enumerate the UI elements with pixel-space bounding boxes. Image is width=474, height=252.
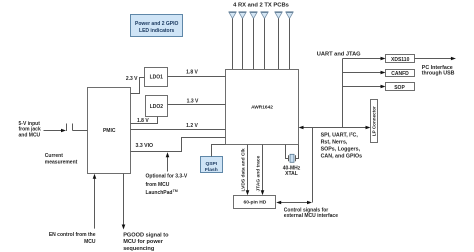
- regulator LDO1: [145, 68, 168, 87]
- svg-text:1.3 V: 1.3 V: [187, 98, 199, 104]
- svg-text:LDO2: LDO2: [150, 104, 164, 110]
- wire: 5-V input arrow: [44, 129, 67, 133]
- wire: UART and JTAG to XDS110: [343, 57, 386, 61]
- svg-text:AWR1642: AWR1642: [251, 105, 273, 111]
- crystal 40-MHz XTAL: [286, 145, 299, 163]
- arrow: PGOOD signal from PMIC: [122, 174, 126, 230]
- svg-text:Rst, Nerrs,: Rst, Nerrs,: [321, 139, 348, 145]
- svg-text:SOP: SOP: [394, 85, 405, 91]
- svg-text:QSPI: QSPI: [205, 161, 217, 167]
- label: Control signals for external MCU interface: [284, 208, 338, 219]
- svg-text:SOPs, Loggers,: SOPs, Loggers,: [321, 147, 361, 153]
- wire: JTAG and trace to 60-pin HD: [261, 145, 265, 196]
- label: Optional for 3.3-V from MCU LaunchPad: [146, 174, 188, 197]
- svg-text:2.3 V: 2.3 V: [126, 76, 138, 82]
- label: PC Interface through USB: [422, 65, 455, 77]
- antenna TX1: [275, 11, 283, 69]
- svg-text:MCU: MCU: [84, 239, 96, 245]
- svg-text:1.8 V: 1.8 V: [186, 70, 198, 76]
- transceiver CANFD: [386, 70, 415, 78]
- arrow: optional 3.3-V feed into 3.3 VIO rail: [166, 152, 170, 171]
- svg-text:PMIC: PMIC: [103, 128, 116, 134]
- label: SPI, UART, I2C, Rst, Nerrs, SOPs, Loggers, CAN, and GPIOs: [321, 132, 363, 160]
- wire: PMIC 1.2V to AWR1642: [131, 129, 226, 131]
- svg-text:from MCU: from MCU: [146, 182, 170, 188]
- wire: branch up to debug blocks: [342, 59, 344, 128]
- svg-text:through USB: through USB: [422, 71, 455, 77]
- wire: drop to 60-pin HD (control signals): [312, 128, 314, 203]
- svg-text:LaunchPad: LaunchPad: [146, 190, 173, 196]
- arrow: XDS110 to PC: [415, 57, 456, 61]
- svg-text:and MCU: and MCU: [19, 132, 41, 138]
- antenna RX2: [239, 11, 247, 69]
- svg-text:3.3 VIO: 3.3 VIO: [136, 143, 154, 149]
- antenna RX4: [261, 11, 269, 69]
- svg-text:external MCU interface: external MCU interface: [284, 213, 338, 219]
- connector LP Connector: [371, 100, 378, 143]
- connector 60-pin HD: [234, 196, 276, 209]
- label: EN control from the MCU: [49, 232, 96, 245]
- antenna TX2: [286, 11, 294, 69]
- label: Current measurement: [45, 153, 78, 165]
- regulator LDO2: [146, 96, 168, 117]
- wire: to CANFD: [343, 71, 386, 75]
- wire: LDO1 1.8V out to AWR1642: [168, 76, 226, 78]
- svg-text:Power and 2 GPIO: Power and 2 GPIO: [135, 21, 178, 27]
- wire: PMIC 3.3 VIO to AWR1642: [131, 138, 226, 152]
- antenna RX1: [229, 11, 237, 69]
- label: 5-V input from jack and MCU: [19, 121, 41, 138]
- svg-text:60-pin HD: 60-pin HD: [243, 199, 266, 205]
- svg-text:Current: Current: [45, 153, 63, 159]
- svg-text:4 RX and 2 TX PCBs: 4 RX and 2 TX PCBs: [233, 3, 289, 9]
- svg-text:LDO1: LDO1: [150, 75, 164, 81]
- svg-text:CANFD: CANFD: [391, 71, 409, 77]
- svg-text:SPI, UART, I2C,: SPI, UART, I2C,: [321, 132, 359, 139]
- wire: PMIC 1.8V to LDO2: [131, 117, 158, 124]
- svg-text:UART and JTAG: UART and JTAG: [317, 51, 361, 57]
- svg-text:Optional for 3.3-V: Optional for 3.3-V: [146, 174, 188, 180]
- wire: LDO2 1.3V out to AWR1642: [168, 104, 226, 106]
- label: PGOOD signal to MCU for power sequencing: [123, 233, 169, 252]
- svg-text:1.8 V: 1.8 V: [137, 118, 149, 124]
- IC AWR1642: [226, 70, 299, 145]
- switch SOP: [386, 83, 415, 91]
- annotation box: Power and 2 GPIO LED indicators: [131, 15, 183, 37]
- svg-text:1.2 V: 1.2 V: [186, 123, 198, 129]
- wire: PMIC 2.3V to LDO1: [131, 78, 145, 94]
- svg-text:JTAG and trace: JTAG and trace: [255, 155, 261, 191]
- svg-text:sequencing: sequencing: [123, 246, 155, 252]
- wire: LVDS data and Clk to 60-pin HD: [246, 145, 250, 196]
- arrow: EN control into PMIC: [93, 174, 97, 229]
- wire: double arrow into 60-pin HD: [276, 201, 312, 205]
- wire: QSPI Flash to AWR1642: [212, 145, 226, 157]
- wire: SPI bus double arrow AWR1642 to LP Connector: [299, 126, 371, 130]
- svg-text:LP Connector: LP Connector: [372, 106, 377, 136]
- svg-text:LVDS data and Clk: LVDS data and Clk: [240, 148, 246, 191]
- svg-text:measurement: measurement: [45, 159, 78, 165]
- svg-text:XTAL: XTAL: [285, 171, 298, 177]
- svg-text:EN control from the: EN control from the: [49, 232, 96, 238]
- antenna RX3: [250, 11, 258, 69]
- svg-text:CAN, and GPIOs: CAN, and GPIOs: [321, 153, 363, 159]
- memory QSPI Flash: [201, 157, 223, 174]
- debug probe XDS110: [386, 55, 415, 63]
- IC PMIC: [88, 88, 131, 174]
- label: 40-MHz XTAL: [283, 165, 301, 177]
- svg-text:Flash: Flash: [205, 167, 218, 173]
- current measurement jumper ticks: [67, 124, 88, 132]
- svg-text:XDS110: XDS110: [391, 57, 410, 63]
- svg-text:LED indicators: LED indicators: [139, 28, 175, 34]
- svg-text:MCU for power: MCU for power: [123, 239, 164, 245]
- svg-text:PGOOD signal to: PGOOD signal to: [123, 233, 169, 239]
- wire: to SOP: [343, 85, 386, 89]
- svg-text:TM: TM: [173, 189, 178, 193]
